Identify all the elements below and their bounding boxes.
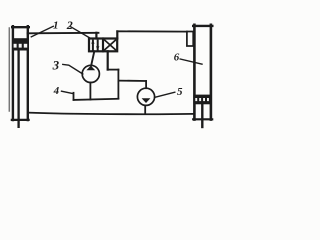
leader for label 3 [63,64,83,74]
wire: line 4 left end tick [73,93,75,100]
svg-text:5: 5 [177,86,183,98]
wire: valve bottom stub [107,51,109,69]
wire: top pipe right segment [117,30,187,32]
pump 3 [82,65,99,82]
valve 2 left-cell arrows [91,40,99,50]
cylinder 1 outer left wall line [8,28,10,111]
wire: valve top-left stub [95,33,97,39]
leader for label 1 [31,26,53,37]
motor 5 [137,88,154,105]
wire: motor bottom stub [144,105,146,113]
wire: valve top-right stub [116,31,118,38]
leader for label 5 [155,92,175,97]
wire: jog right [108,69,119,71]
cylinder 6 port collar [187,32,193,47]
cylinder 1 body [12,26,29,120]
wire: top pipe left segment [28,32,99,35]
leader for label 2 [71,27,90,38]
cylinder 6 piston rod [201,104,203,127]
node/line 4 suction line [74,99,119,100]
cylinder 1 piston (hatched) [12,38,29,50]
cylinder 6 body [193,25,212,120]
wire: bottom pipe [28,113,193,115]
leader for label 4 [62,91,73,93]
svg-text:2: 2 [66,18,73,32]
valve 2 right-cell crossed arrows [105,40,116,50]
svg-text:1: 1 [53,20,59,32]
svg-text:6: 6 [174,51,180,63]
leader for label 6 [180,59,202,64]
wire: valve to pump stub [91,51,94,65]
wire: horizontal run to motor [118,80,146,82]
wire: pump bottom stub to line 4 [89,83,91,100]
wire: vertical drop to line 4 [117,70,119,99]
cylinder 1 piston rod [17,51,19,127]
valve 2 body [89,39,117,52]
svg-text:4: 4 [53,85,60,97]
cylinder 6 piston (hatched) [193,95,211,105]
svg-text:3: 3 [52,58,60,73]
wire: motor top stub [145,81,147,88]
